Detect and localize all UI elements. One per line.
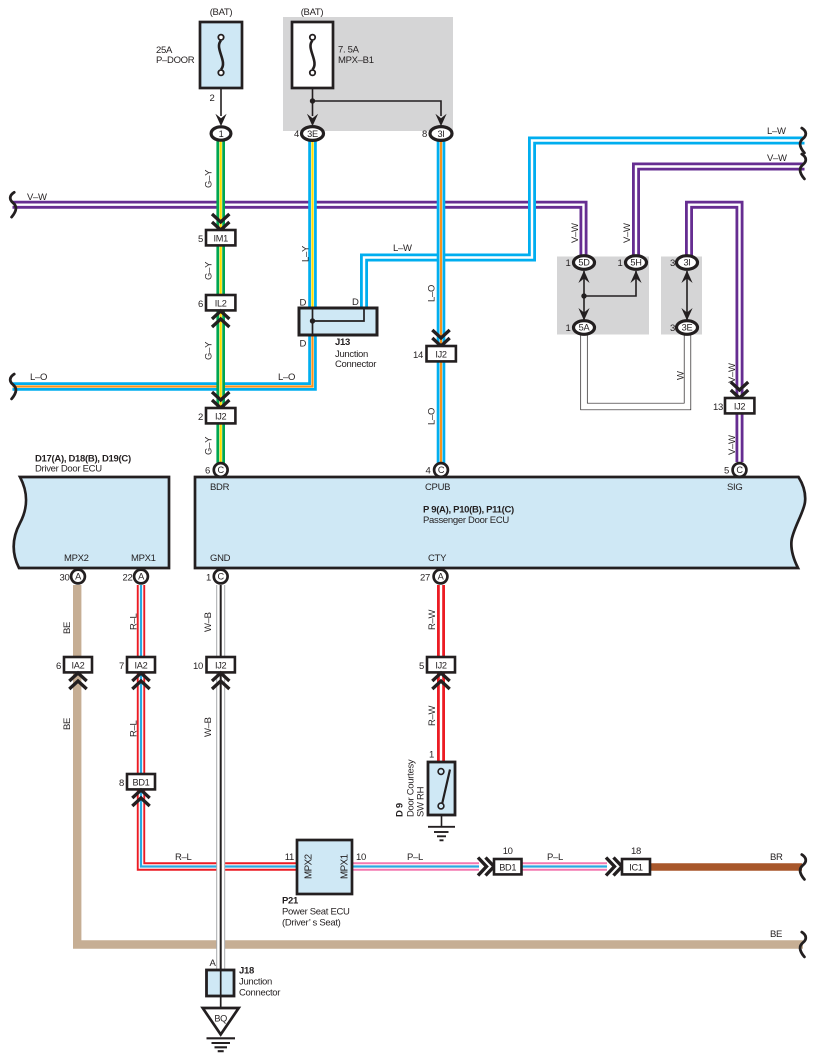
svg-text:5: 5 (724, 466, 729, 477)
svg-text:BE: BE (770, 929, 782, 940)
connector IJ2 pin 5 with arrow (419, 657, 455, 689)
svg-text:22: 22 (123, 573, 133, 584)
connector IJ2 pin 14 with arrow (413, 330, 456, 361)
svg-text:4: 4 (294, 129, 299, 140)
page break squiggle right V-W (800, 154, 806, 179)
svg-text:1: 1 (206, 573, 211, 584)
connector oval 3I (pin 8) (422, 127, 452, 141)
svg-text:13: 13 (713, 402, 723, 413)
svg-text:BE: BE (62, 718, 73, 730)
wire L-Y from connector 3E to J13 (308, 141, 317, 308)
svg-text:R–L: R–L (129, 613, 140, 630)
svg-text:C: C (218, 572, 225, 582)
svg-text:(BAT): (BAT) (301, 7, 324, 18)
svg-text:Power Seat ECU: Power Seat ECU (282, 907, 350, 918)
svg-text:18: 18 (631, 846, 641, 857)
svg-text:IC1: IC1 (629, 863, 643, 873)
svg-text:IJ2: IJ2 (435, 350, 447, 360)
svg-text:1: 1 (566, 323, 571, 334)
svg-text:L–Y: L–Y (301, 245, 312, 262)
svg-text:14: 14 (413, 350, 423, 361)
svg-text:MPX–B1: MPX–B1 (338, 55, 374, 66)
page break squiggle left V-W (10, 192, 16, 217)
svg-text:CPUB: CPUB (425, 482, 450, 493)
svg-text:IA2: IA2 (135, 661, 148, 671)
svg-text:3I: 3I (437, 129, 444, 139)
wire L-W from right edge to junction connector J13 (364, 141, 805, 309)
junction connector J13 (299, 297, 377, 370)
svg-text:6: 6 (198, 299, 203, 310)
svg-text:4: 4 (426, 466, 431, 477)
svg-text:C: C (438, 465, 445, 475)
svg-text:MPX1: MPX1 (340, 854, 351, 879)
svg-text:G–Y: G–Y (204, 169, 215, 188)
svg-text:10: 10 (503, 846, 513, 857)
svg-text:IJ2: IJ2 (215, 661, 227, 671)
svg-text:IJ2: IJ2 (435, 661, 447, 671)
svg-text:3: 3 (670, 258, 675, 269)
svg-text:W: W (676, 371, 687, 380)
connector IA2 pin 6 with arrow (56, 657, 92, 689)
connector IM1 pin 5 with arrow (198, 214, 235, 245)
connector IA2 pin 7 with arrow (119, 657, 155, 689)
svg-text:BQ: BQ (214, 1014, 227, 1024)
svg-text:6: 6 (56, 661, 61, 672)
connector IC1 pin 18 with arrow (606, 846, 650, 876)
svg-text:BD1: BD1 (499, 863, 516, 873)
fuse 25A P-DOOR (156, 7, 242, 104)
svg-text:IM1: IM1 (213, 234, 228, 244)
driver door ECU box D17/D18/D19 (14, 454, 169, 569)
svg-text:Junction: Junction (239, 977, 272, 988)
svg-text:V–W: V–W (727, 363, 738, 383)
svg-text:CTY: CTY (428, 553, 447, 564)
svg-text:5: 5 (198, 234, 203, 245)
shield gray box around fuse MPX-B1 (283, 17, 453, 131)
svg-text:(Driver’ s Seat): (Driver’ s Seat) (282, 918, 341, 929)
svg-text:11: 11 (285, 852, 294, 863)
connector oval 3E (pin 4) (294, 127, 323, 141)
svg-text:BR: BR (770, 852, 783, 863)
svg-text:V–W: V–W (727, 435, 738, 455)
svg-text:R–L: R–L (129, 720, 140, 737)
wire P-L from BD1 to IC1 (521, 862, 607, 870)
svg-text:1: 1 (429, 750, 434, 761)
svg-text:BDR: BDR (210, 482, 230, 493)
svg-text:5A: 5A (579, 323, 591, 333)
connector IJ2 pin 10 with arrow (193, 657, 235, 689)
svg-text:MPX2: MPX2 (64, 553, 89, 564)
ground symbol below BQ (207, 1038, 236, 1051)
svg-text:7. 5A: 7. 5A (338, 45, 360, 56)
svg-text:(BAT): (BAT) (210, 7, 233, 18)
power seat ECU P21 (282, 840, 366, 929)
svg-text:W–B: W–B (203, 612, 214, 632)
svg-text:IA2: IA2 (72, 661, 85, 671)
svg-text:L–O: L–O (427, 285, 438, 302)
svg-text:IJ2: IJ2 (734, 402, 746, 412)
ground triangle BQ (203, 1008, 239, 1035)
svg-text:P–L: P–L (407, 852, 423, 863)
wire V-W from connector 3I to SIG pin of passenger door ECU (689, 205, 740, 462)
shield gray box around connectors 5D/5H/5A (557, 257, 649, 335)
svg-text:D: D (300, 298, 307, 309)
svg-text:Driver Door ECU: Driver Door ECU (35, 464, 102, 475)
svg-text:2: 2 (210, 93, 215, 104)
svg-text:BE: BE (62, 622, 73, 634)
fuse 7.5A MPX-B1 (292, 7, 374, 88)
svg-text:P 9(A), P10(B), P11(C): P 9(A), P10(B), P11(C) (423, 505, 514, 516)
wire V-W from right edge to connector 5H (636, 167, 805, 257)
svg-text:J13: J13 (335, 337, 350, 348)
svg-text:3I: 3I (683, 258, 690, 268)
pin 27 A circle at CTY (420, 570, 447, 584)
svg-text:IL2: IL2 (215, 299, 227, 309)
svg-text:A: A (210, 958, 217, 969)
connector oval 1 (211, 127, 231, 140)
connector oval 3I pin 3 with arrows (670, 256, 697, 321)
svg-text:2: 2 (198, 412, 203, 423)
connector IL2 pin 6 with arrow (198, 295, 235, 327)
wire P-L from P21 to connector BD1 (352, 862, 479, 870)
page break squiggle left L-O (10, 374, 16, 399)
svg-text:P–L: P–L (547, 852, 563, 863)
svg-text:3E: 3E (307, 129, 318, 139)
connector oval 5D pin 1 with arrow (566, 256, 642, 321)
svg-text:V–W: V–W (622, 223, 633, 243)
connector oval 3E pin 3 (670, 321, 697, 335)
svg-text:L–O: L–O (30, 372, 47, 383)
svg-text:5: 5 (419, 661, 424, 672)
svg-text:L–O: L–O (427, 408, 438, 425)
svg-text:3E: 3E (682, 323, 693, 333)
svg-text:BD1: BD1 (133, 778, 150, 788)
connector oval 5A pin 1 (566, 321, 595, 335)
connector BD1 pin 10 with arrow (478, 846, 522, 876)
svg-text:V–W: V–W (27, 192, 47, 203)
svg-text:27: 27 (420, 573, 430, 584)
wire BR from IC1 to right edge (650, 863, 802, 871)
shield gray box around connectors 3I/3E (661, 257, 702, 335)
connector oval 5H pin 1 (618, 256, 647, 270)
wire fuse1 to connector 1 (215, 88, 226, 126)
pin 6 C circle at BDR (205, 463, 228, 477)
svg-text:Connector: Connector (239, 988, 280, 999)
svg-text:W–B: W–B (203, 717, 214, 737)
wire R-L from MPX1 pin to power seat ECU P21 (141, 585, 298, 867)
svg-text:G–Y: G–Y (204, 436, 215, 455)
svg-text:10: 10 (193, 661, 203, 672)
svg-text:Connector: Connector (335, 359, 376, 370)
svg-text:D: D (300, 339, 307, 350)
svg-text:L–W: L–W (393, 243, 412, 254)
svg-text:8: 8 (119, 778, 124, 789)
svg-text:G–Y: G–Y (204, 261, 215, 280)
svg-text:5D: 5D (578, 258, 590, 268)
svg-text:6: 6 (205, 466, 210, 477)
svg-text:MPX2: MPX2 (304, 854, 315, 879)
svg-text:SW RH: SW RH (416, 786, 427, 817)
svg-text:L–W: L–W (767, 126, 786, 137)
pin 1 C circle at GND (206, 570, 228, 584)
wire G-Y from connector 1 to BDR pin (216, 141, 225, 463)
svg-text:J18: J18 (239, 966, 254, 977)
passenger door ECU box P9/P10/P11 (195, 477, 805, 568)
svg-text:SIG: SIG (727, 482, 742, 493)
svg-text:1: 1 (618, 258, 623, 269)
pin 30 A circle at MPX2 (60, 570, 85, 584)
wire R-W from CTY pin to door courtesy switch D9 (437, 585, 445, 763)
connector IJ2 pin 2 with arrow (198, 392, 235, 423)
svg-text:8: 8 (422, 129, 427, 140)
svg-text:R–L: R–L (175, 852, 192, 863)
svg-text:C: C (218, 465, 225, 475)
door courtesy switch D9 (395, 750, 456, 818)
svg-text:V–W: V–W (767, 153, 787, 164)
connector BD1 pin 8 with arrow (119, 774, 155, 806)
wire W-B from GND pin to junction connector J18 (216, 585, 225, 970)
wire L-O from connector 3I to CPUB pin (437, 141, 446, 463)
svg-text:C: C (736, 465, 743, 475)
wire W between connectors 5A and 3E (584, 333, 688, 407)
pin 22 A circle at MPX1 (123, 570, 148, 584)
svg-text:3: 3 (670, 323, 675, 334)
svg-text:P–DOOR: P–DOOR (156, 55, 195, 66)
svg-text:Passenger Door ECU: Passenger Door ECU (423, 515, 509, 526)
wire BE from MPX2 pin to right edge (77, 585, 803, 945)
pin 5 C circle at SIG (724, 463, 746, 477)
wire L-O from left edge to junction connector J13 (13, 335, 313, 387)
svg-text:1: 1 (219, 129, 224, 139)
svg-text:5H: 5H (630, 258, 641, 268)
junction connector J18 (207, 958, 281, 1008)
svg-text:D 9: D 9 (395, 803, 406, 817)
svg-text:R–W: R–W (427, 705, 438, 726)
svg-text:P21: P21 (282, 896, 299, 907)
svg-text:30: 30 (60, 573, 70, 584)
connector IJ2 pin 13 with arrow (713, 382, 754, 413)
svg-text:7: 7 (119, 661, 124, 672)
svg-text:G–Y: G–Y (204, 341, 215, 360)
wire V-W from left edge to connector 5D (13, 205, 584, 256)
svg-text:R–W: R–W (427, 609, 438, 630)
svg-text:V–W: V–W (570, 223, 581, 243)
page break squiggle right L-W (800, 128, 806, 153)
svg-text:MPX1: MPX1 (131, 553, 156, 564)
svg-text:GND: GND (210, 553, 231, 564)
svg-text:D: D (352, 297, 359, 308)
svg-text:IJ2: IJ2 (215, 412, 227, 422)
pin 4 C circle at CPUB (426, 463, 448, 477)
svg-text:L–O: L–O (278, 372, 295, 383)
wire fuse2 to connectors 3E/3I with junction (307, 88, 447, 126)
svg-text:1: 1 (566, 258, 571, 269)
page break squiggle right BE (800, 932, 806, 957)
svg-text:10: 10 (356, 852, 366, 863)
ground under D9 (428, 815, 455, 840)
page break squiggle right BR (800, 855, 806, 880)
